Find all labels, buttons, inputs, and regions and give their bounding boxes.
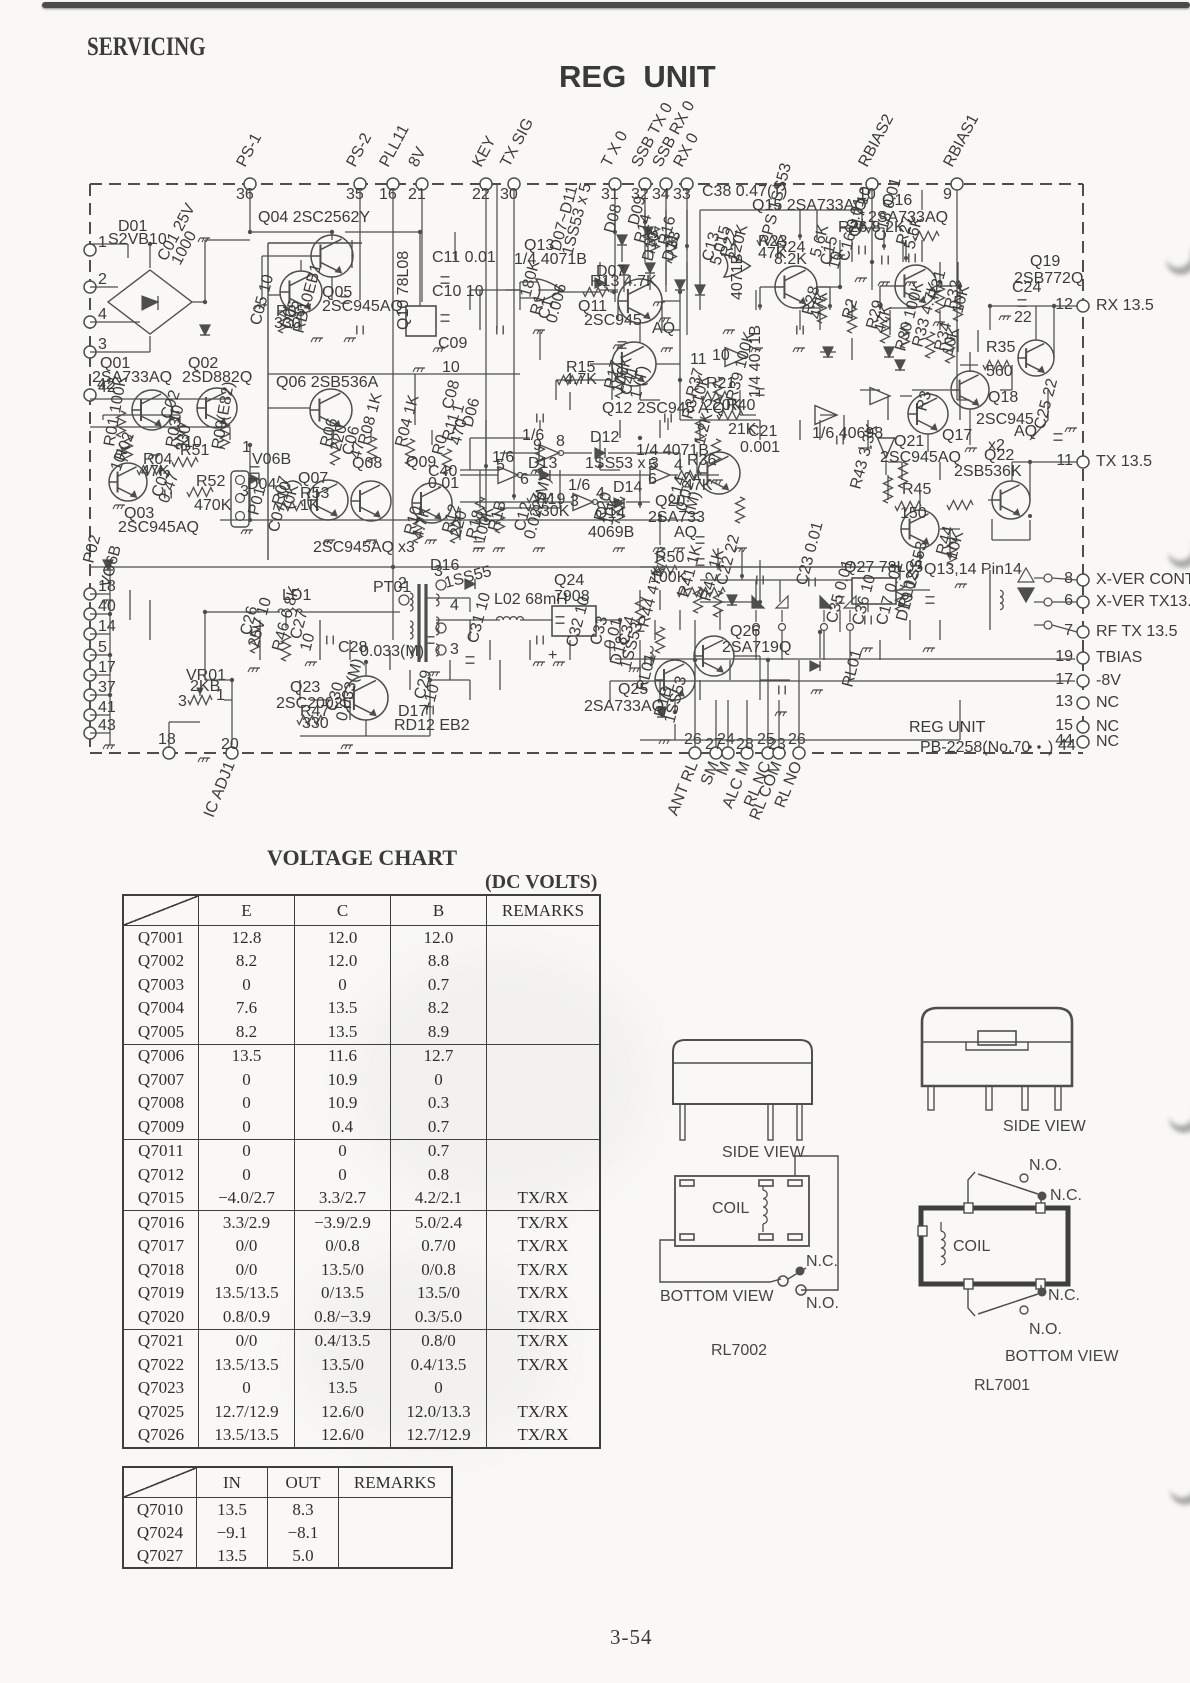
svg-text:9: 9 xyxy=(943,186,952,203)
wire xyxy=(513,468,515,500)
wire xyxy=(939,462,941,480)
wire xyxy=(1011,365,1013,390)
scan artifact: top edge strip xyxy=(42,2,1190,8)
svg-text:C23 0.01: C23 0.01 xyxy=(793,520,826,587)
wire xyxy=(600,289,618,291)
wire xyxy=(563,452,592,454)
ground xyxy=(367,539,377,541)
wire xyxy=(867,604,869,612)
wire xyxy=(609,640,611,660)
wire xyxy=(519,282,521,310)
wire xyxy=(659,520,661,545)
svg-text:5: 5 xyxy=(98,639,107,656)
wire xyxy=(759,287,761,310)
wire xyxy=(760,679,790,681)
svg-text:PB-2258(No.70: PB-2258(No.70 xyxy=(920,739,1030,756)
wire xyxy=(370,430,372,442)
wire xyxy=(654,226,656,232)
svg-text:Q26: Q26 xyxy=(730,623,760,640)
svg-text:2: 2 xyxy=(98,271,107,288)
wire xyxy=(179,415,181,424)
svg-text:34: 34 xyxy=(652,186,670,203)
svg-text:NC: NC xyxy=(1096,694,1119,711)
wire xyxy=(798,660,800,747)
resistor R41 1K xyxy=(694,587,703,613)
wire xyxy=(623,276,625,292)
relay RL7002 pin 2 xyxy=(768,1104,773,1140)
node SSB RX 0 (pin 34) xyxy=(660,178,672,190)
wire xyxy=(205,239,250,241)
capacitor C11 xyxy=(556,616,565,618)
wire xyxy=(819,632,821,658)
wire xyxy=(499,660,501,690)
wire xyxy=(426,597,470,599)
svg-text:N.O.: N.O. xyxy=(1029,1157,1062,1174)
diode D0a xyxy=(675,280,685,290)
svg-text:Q04 2SC2562Y: Q04 2SC2562Y xyxy=(258,209,370,226)
svg-text:2SC945AQ: 2SC945AQ xyxy=(322,298,403,315)
wire xyxy=(679,610,681,630)
inductor LD1 xyxy=(278,609,302,612)
svg-text:1/6: 1/6 xyxy=(522,427,544,444)
wire xyxy=(989,306,991,330)
svg-text:SIDE VIEW: SIDE VIEW xyxy=(1003,1118,1087,1135)
svg-text:RL7002: RL7002 xyxy=(711,1342,767,1359)
wire xyxy=(889,310,891,330)
node junction xyxy=(248,443,252,447)
wire xyxy=(871,262,873,290)
svg-text:22: 22 xyxy=(1014,309,1032,326)
wire xyxy=(1052,578,1077,580)
capacitor C41 xyxy=(808,578,810,587)
resistor R49 47K xyxy=(656,627,665,653)
capacitor C07 xyxy=(756,388,765,390)
svg-text:35: 35 xyxy=(346,186,364,203)
capacitor C10 xyxy=(1018,299,1027,301)
node X-VER TX13.5 (pin 6) xyxy=(1077,596,1089,608)
ground xyxy=(105,744,115,746)
transistor Q17 xyxy=(908,394,948,434)
ground xyxy=(555,661,565,663)
wire xyxy=(959,286,961,310)
node junction xyxy=(882,244,886,248)
wire xyxy=(500,452,539,454)
wire xyxy=(626,501,650,503)
node PT01 pin 2 xyxy=(399,595,409,605)
svg-text:44: 44 xyxy=(1058,737,1076,754)
capacitor C12 xyxy=(636,624,645,626)
diode D10 xyxy=(619,265,629,275)
wire xyxy=(1082,184,1084,753)
svg-text:17: 17 xyxy=(98,659,116,676)
svg-text:2SA733AQ: 2SA733AQ xyxy=(868,209,948,226)
wire xyxy=(639,470,641,508)
wire xyxy=(460,474,498,476)
wire xyxy=(674,724,676,740)
svg-text:RBIAS2: RBIAS2 xyxy=(856,112,898,170)
wire xyxy=(883,228,885,250)
wire xyxy=(1053,306,1055,358)
wire xyxy=(529,640,531,660)
wire xyxy=(896,589,930,591)
wire xyxy=(871,190,873,262)
wire xyxy=(250,231,332,233)
transformer PT01 xyxy=(417,584,420,662)
wire xyxy=(909,620,911,640)
wire xyxy=(599,262,601,276)
wire xyxy=(419,232,421,306)
diode D05 xyxy=(465,579,475,589)
wire xyxy=(759,420,761,440)
wire xyxy=(331,232,333,240)
ground xyxy=(535,547,545,549)
svg-text:4: 4 xyxy=(98,306,107,323)
node pin 41 xyxy=(84,709,96,721)
svg-text:4.7K: 4.7K xyxy=(564,371,597,388)
svg-text:PS-1: PS-1 xyxy=(234,130,266,169)
wire xyxy=(659,420,661,438)
relay contact arm d xyxy=(844,596,856,608)
svg-text:2SA733AQ: 2SA733AQ xyxy=(92,369,172,386)
node junction xyxy=(638,502,642,506)
wire xyxy=(555,380,557,400)
wire xyxy=(90,321,140,323)
wire xyxy=(640,739,960,741)
wire xyxy=(608,452,680,454)
svg-text:R52: R52 xyxy=(196,473,225,490)
resistor R53 1K xyxy=(277,502,303,511)
wire xyxy=(639,323,641,342)
transistor Q18 xyxy=(951,371,989,409)
wire xyxy=(459,508,461,540)
wire xyxy=(639,660,641,680)
wire xyxy=(90,398,230,400)
capacitor C32 xyxy=(496,326,498,335)
wire xyxy=(619,620,621,640)
wire xyxy=(921,240,923,262)
wire xyxy=(90,593,110,595)
wire xyxy=(819,420,821,440)
capacitor C33 xyxy=(536,414,538,423)
diode D0b xyxy=(695,285,705,295)
relay RL7002 pad 5 xyxy=(759,1234,773,1240)
node junction xyxy=(108,653,112,657)
ground xyxy=(925,647,935,649)
wire xyxy=(331,277,333,300)
wire xyxy=(109,567,111,745)
node junction xyxy=(870,260,874,264)
wire xyxy=(957,262,959,285)
ground xyxy=(243,529,253,531)
node pin 42 xyxy=(84,389,96,401)
wire xyxy=(205,611,280,613)
svg-text:1: 1 xyxy=(98,234,107,251)
wire xyxy=(839,610,841,632)
relay RL7001 pad 4 xyxy=(1036,1279,1045,1289)
wire xyxy=(204,240,206,302)
svg-text:D13: D13 xyxy=(528,455,557,472)
svg-text:2SC945AQ: 2SC945AQ xyxy=(118,519,199,536)
wire xyxy=(949,529,951,560)
wire xyxy=(485,420,487,470)
wire xyxy=(919,490,921,510)
wire xyxy=(1047,390,1049,420)
node junction xyxy=(364,660,368,664)
capacitor C04 xyxy=(441,276,450,278)
node pin 37 xyxy=(84,689,96,701)
wire xyxy=(767,660,769,747)
svg-text:4: 4 xyxy=(450,597,459,614)
wire xyxy=(523,474,540,476)
capacitor C37 xyxy=(881,256,883,265)
node junction xyxy=(428,678,432,682)
node junction xyxy=(938,280,942,284)
ground xyxy=(475,547,485,549)
node 8V (pin 21) xyxy=(416,178,428,190)
svg-text:11: 11 xyxy=(690,351,707,368)
ground xyxy=(661,317,671,319)
svg-text:43: 43 xyxy=(98,717,116,734)
wire xyxy=(656,363,680,365)
wire xyxy=(538,289,560,291)
wire xyxy=(991,519,993,540)
wire xyxy=(513,190,515,468)
resistor R40 21K xyxy=(717,411,743,420)
buffer 1/6 40698 g xyxy=(870,388,890,405)
node junction xyxy=(988,304,992,308)
wire xyxy=(569,640,571,660)
diode D16 xyxy=(657,707,667,717)
op-amp U13 OR gate 1/4 4071B xyxy=(536,279,562,301)
wire xyxy=(550,474,650,476)
svg-text:RL7001: RL7001 xyxy=(974,1377,1030,1394)
diode D20 xyxy=(727,595,737,605)
wire xyxy=(957,399,970,401)
resistor R46 6.8K xyxy=(282,635,291,661)
svg-text:Q09: Q09 xyxy=(406,454,436,471)
heading VOLTAGE CHART xyxy=(267,845,457,871)
wire xyxy=(699,210,701,290)
wire xyxy=(992,539,1030,541)
node RBIAS2 (pin 10) xyxy=(866,178,878,190)
capacitor C47 xyxy=(536,636,538,645)
transistor Q26 xyxy=(694,636,734,676)
capacitor C09 xyxy=(474,541,483,543)
wire xyxy=(285,612,287,628)
wire xyxy=(204,612,206,680)
svg-text:C05 10: C05 10 xyxy=(247,273,277,327)
wire xyxy=(520,619,552,621)
svg-text:AQ: AQ xyxy=(674,524,697,541)
svg-text:2SB772Q: 2SB772Q xyxy=(1014,270,1083,287)
wire xyxy=(469,290,471,310)
svg-text:C09: C09 xyxy=(438,335,467,352)
resistor R19 330K xyxy=(527,494,553,503)
wire xyxy=(940,528,960,530)
transistor Q19 xyxy=(1018,340,1054,376)
ground xyxy=(115,504,125,506)
resistor R39 100K xyxy=(736,497,745,523)
node pin 14 xyxy=(84,628,96,640)
relay contact arm b xyxy=(776,596,788,608)
wire xyxy=(937,285,960,287)
svg-text:R04 1K: R04 1K xyxy=(392,393,422,449)
node junction xyxy=(638,436,642,440)
resistor R44 10K xyxy=(948,539,957,565)
svg-text:10: 10 xyxy=(184,434,202,451)
diode P02 xyxy=(249,474,259,484)
diode D15 xyxy=(200,325,210,335)
svg-text:Q25: Q25 xyxy=(618,681,648,698)
resistor R28 47K xyxy=(818,297,827,323)
svg-text:1/4 4071B: 1/4 4071B xyxy=(514,251,587,268)
wire xyxy=(679,453,681,470)
wire xyxy=(680,419,760,421)
relay RL7001 latch xyxy=(978,1031,1016,1045)
node junction xyxy=(956,280,960,284)
wire xyxy=(436,619,500,621)
resistor R24 8.2K xyxy=(913,232,939,241)
wire xyxy=(590,363,612,365)
wire xyxy=(102,415,104,420)
node M (pin 24) xyxy=(722,747,734,759)
ground xyxy=(737,547,747,549)
svg-text:560: 560 xyxy=(986,363,1013,380)
wire xyxy=(1012,461,1077,463)
ground xyxy=(257,304,267,306)
node junction xyxy=(828,304,832,308)
buffer 1/6 4069B a xyxy=(498,467,518,484)
resistor R36 47K xyxy=(675,471,701,480)
svg-text:20: 20 xyxy=(221,736,239,753)
diode D08 xyxy=(617,235,627,245)
wire xyxy=(430,679,470,681)
svg-text:0.033(M): 0.033(M) xyxy=(360,643,424,660)
svg-text:S2VB10: S2VB10 xyxy=(108,231,167,248)
transistor Q03 xyxy=(109,463,147,501)
svg-text:Q19: Q19 xyxy=(1030,253,1060,270)
wire xyxy=(599,438,601,470)
ground xyxy=(313,337,323,339)
node junction xyxy=(643,220,647,224)
relay RL7002 pad 3 xyxy=(788,1180,802,1186)
wire xyxy=(649,274,651,290)
wire xyxy=(939,620,941,640)
wire xyxy=(686,210,688,250)
resistor R22 220K xyxy=(714,377,723,403)
relay RL7001 side view body xyxy=(922,1008,1072,1086)
ground xyxy=(863,647,873,649)
capacitor C16 xyxy=(836,596,845,598)
node PS-2 (pin 35) xyxy=(354,178,366,190)
node (pin 18) xyxy=(163,747,175,759)
resistor R37 10K xyxy=(696,417,705,443)
node RX 13.5 (pin 12) xyxy=(1077,300,1089,312)
relay RL7001 pad 3 xyxy=(964,1279,973,1289)
wire xyxy=(694,660,696,747)
op-amp 1/4 4071B buf xyxy=(650,467,670,484)
buffer 1/6 40698 e xyxy=(815,406,837,425)
transistor Q09 xyxy=(412,483,452,523)
svg-text:17: 17 xyxy=(1055,671,1073,688)
node NC (pin 13) xyxy=(1077,697,1089,709)
resistor R30 100K xyxy=(901,322,910,348)
diode D04 xyxy=(103,560,113,570)
node pin 4 xyxy=(84,316,96,328)
resistor R55 100K xyxy=(656,547,665,573)
wire xyxy=(600,469,620,471)
ground xyxy=(533,469,543,471)
capacitor C18 xyxy=(1054,433,1063,435)
capacitor C01 xyxy=(171,411,180,413)
wire xyxy=(674,700,676,712)
wire xyxy=(149,244,151,268)
ground xyxy=(1001,315,1011,317)
svg-text:D07: D07 xyxy=(596,263,625,280)
wire xyxy=(609,681,611,702)
wire xyxy=(829,287,831,310)
node junction xyxy=(391,565,395,569)
wire xyxy=(539,330,541,360)
wire xyxy=(469,598,471,612)
ground xyxy=(935,321,945,323)
node junction xyxy=(716,564,720,568)
ground xyxy=(535,661,545,663)
svg-text:COIL: COIL xyxy=(953,1238,990,1255)
relay RL7001 top contact set xyxy=(968,1172,975,1203)
wire xyxy=(899,567,901,580)
wire xyxy=(103,414,180,416)
capacitor C46 xyxy=(326,636,328,645)
node SSB TX 0 (pin 32) xyxy=(639,178,651,190)
ground xyxy=(655,301,665,303)
ground xyxy=(150,454,160,456)
node TBIAS (pin 19) xyxy=(1077,652,1089,664)
wire xyxy=(500,507,560,509)
wire xyxy=(127,244,129,258)
transistor Q20 xyxy=(698,452,740,494)
svg-text:31: 31 xyxy=(601,186,619,203)
svg-text:RL01: RL01 xyxy=(839,648,865,689)
ground xyxy=(103,599,113,601)
wire xyxy=(90,694,110,696)
svg-text:18: 18 xyxy=(158,731,176,748)
wire xyxy=(719,610,721,630)
node KEY (pin 22) xyxy=(480,178,492,190)
wire xyxy=(598,501,614,503)
transistor Q23 xyxy=(344,676,388,720)
wire xyxy=(259,620,261,660)
wire xyxy=(1052,601,1077,603)
wire xyxy=(679,380,681,420)
svg-text:23: 23 xyxy=(768,736,786,753)
svg-text:1: 1 xyxy=(242,439,251,456)
wire xyxy=(479,290,481,330)
relay RL7002 pad 1 xyxy=(680,1180,694,1186)
transistor Q05 xyxy=(280,271,322,313)
transistor Q01 xyxy=(132,390,172,430)
svg-text:12: 12 xyxy=(1055,296,1073,313)
wire xyxy=(861,210,863,228)
wire xyxy=(819,308,821,330)
svg-text:3: 3 xyxy=(450,641,459,658)
svg-text:N.C.: N.C. xyxy=(806,1253,838,1270)
node RBIAS1 (pin 9) xyxy=(951,178,963,190)
wire xyxy=(496,184,498,330)
relay contact arm c xyxy=(820,596,832,608)
svg-text:RX 13.5: RX 13.5 xyxy=(1096,297,1154,314)
svg-text:0.006: 0.006 xyxy=(543,282,570,325)
